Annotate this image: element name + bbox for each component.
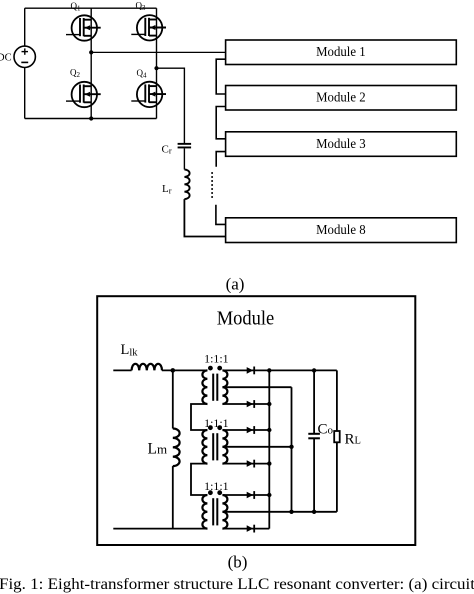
svg-text:1:1:1: 1:1:1 xyxy=(204,416,229,430)
svg-text:Module 2: Module 2 xyxy=(316,90,366,105)
transformer T2 xyxy=(202,425,227,463)
transistor Q4 xyxy=(131,82,166,107)
diode D2 xyxy=(247,400,255,408)
junction minus rail bus2 xyxy=(289,510,293,514)
transistor Q2 xyxy=(66,82,101,107)
wire RL upper xyxy=(336,370,338,431)
wire Llk to T1 primary xyxy=(162,369,208,371)
wire T3 sec mid lead / output minus rail xyxy=(223,511,337,513)
wire bus2 (center tap bus) xyxy=(291,387,293,512)
wire node to Lm xyxy=(172,370,174,428)
wire Co lower xyxy=(313,439,315,512)
wire Lr to Module 8 lower terminal xyxy=(184,199,225,236)
wire bottom input xyxy=(113,528,207,530)
wire T1 sec bottom lead xyxy=(223,403,270,405)
wire down to Module8 up xyxy=(216,205,226,225)
transformer T3 xyxy=(202,490,227,528)
junction plus rail Co xyxy=(312,368,316,372)
wire T3 sec top lead xyxy=(223,494,270,496)
diode D4 xyxy=(247,460,255,468)
wire T2 primary bottom to T3 primary top xyxy=(191,464,207,495)
wire left rail upper xyxy=(24,8,26,46)
svg-text:Q1: Q1 xyxy=(71,1,82,13)
wire Co upper xyxy=(313,370,315,433)
junction D3 bus1 xyxy=(267,428,271,432)
svg-text:Module 3: Module 3 xyxy=(316,136,366,151)
junction minus rail Co xyxy=(312,510,316,514)
junction D1 bus1 xyxy=(267,368,271,372)
svg-text:RL: RL xyxy=(345,432,361,448)
wire top rail xyxy=(25,7,157,9)
transistor Q3 xyxy=(131,15,166,40)
svg-text:Lr: Lr xyxy=(162,183,172,195)
wire left leg vertical xyxy=(90,8,92,118)
Module 1 box xyxy=(226,40,457,65)
wire T1 sec mid lead xyxy=(223,386,292,388)
junction Llk/Lm node xyxy=(171,368,176,373)
Module 8 box xyxy=(226,218,457,243)
svg-text:Q2: Q2 xyxy=(70,68,81,80)
inductor Llk xyxy=(132,364,162,371)
junction node B (right leg midpoint) xyxy=(154,66,158,70)
junction T2 mid bus2 xyxy=(289,445,293,449)
dotted continuation line xyxy=(211,172,213,198)
svg-text:Q4: Q4 xyxy=(137,68,148,80)
junction bottom rail / Q2 source xyxy=(89,116,93,120)
svg-text:Module 1: Module 1 xyxy=(316,44,366,59)
transistor Q1 xyxy=(66,15,101,40)
wire T3 sec bottom lead xyxy=(223,528,270,530)
wire top input xyxy=(113,369,131,371)
svg-text:Q3: Q3 xyxy=(136,1,147,13)
svg-text:Llk: Llk xyxy=(121,342,139,359)
inductor Lr xyxy=(184,170,189,200)
svg-text:(b): (b) xyxy=(228,553,248,572)
wire T2 sec mid lead xyxy=(223,446,292,448)
diode D6 xyxy=(247,525,255,533)
wire Cr to Lr xyxy=(183,148,185,169)
Module 2 box xyxy=(226,86,457,111)
svg-text:1:1:1: 1:1:1 xyxy=(204,479,229,493)
wire bus1 (diode cathode bus) xyxy=(268,370,270,528)
capacitor Co xyxy=(308,433,320,440)
Module 3 box xyxy=(226,132,457,157)
junction D5 bus1 xyxy=(267,493,271,497)
wire right leg vertical xyxy=(156,8,158,118)
wire T2 sec top lead xyxy=(223,429,270,431)
wire node A to Module 1 xyxy=(91,51,225,53)
svg-text:DC: DC xyxy=(0,52,12,63)
transformer T1 xyxy=(202,366,227,404)
resistor RL xyxy=(334,431,340,442)
junction D2 bus1 xyxy=(267,402,271,406)
Module outline box xyxy=(97,296,415,545)
svg-text:Lm: Lm xyxy=(148,441,168,458)
wire Module2 low to Module3 up xyxy=(216,107,225,139)
wire left rail lower xyxy=(24,68,26,119)
wire RL lower xyxy=(336,442,338,512)
wire T1 primary bottom to T2 primary top xyxy=(191,404,207,430)
svg-text:Fig. 1: Eight-transformer stru: Fig. 1: Eight-transformer structure LLC … xyxy=(0,576,474,593)
junction D4 bus1 xyxy=(267,461,271,465)
svg-text:Module 8: Module 8 xyxy=(316,222,366,237)
svg-text:Co: Co xyxy=(318,422,334,438)
DC source V1 xyxy=(14,46,35,67)
wire Module3 low down xyxy=(216,152,225,167)
wire bottom rail xyxy=(25,118,157,120)
svg-text:(a): (a) xyxy=(226,275,245,294)
junction node A (left leg midpoint) xyxy=(89,50,93,54)
wire Lm to bottom input xyxy=(172,466,174,528)
diode D1 xyxy=(247,367,255,375)
diode D3 xyxy=(247,426,255,434)
wire T2 sec bottom lead xyxy=(223,463,270,465)
wire T1 sec top lead / output plus rail xyxy=(223,369,337,371)
svg-text:Module: Module xyxy=(217,308,275,330)
capacitor Cr xyxy=(178,143,192,149)
svg-text:Cr: Cr xyxy=(162,143,172,155)
inductor Lm xyxy=(173,429,180,467)
svg-text:1:1:1: 1:1:1 xyxy=(204,352,229,366)
wire node B to resonant tank xyxy=(157,68,185,143)
wire Module1 low to Module2 up xyxy=(216,59,225,94)
diode D5 xyxy=(247,491,255,499)
